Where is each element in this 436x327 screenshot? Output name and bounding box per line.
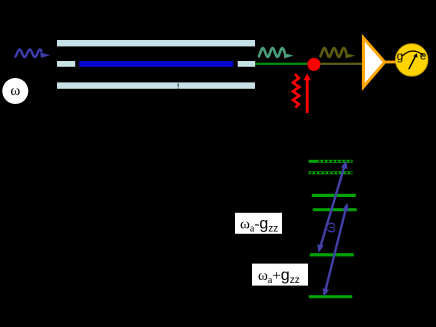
svg-text:ω: ω — [320, 222, 339, 233]
svg-text:ω: ω — [10, 83, 20, 99]
svg-text:g: g — [397, 51, 403, 63]
svg-text:e: e — [420, 50, 426, 62]
